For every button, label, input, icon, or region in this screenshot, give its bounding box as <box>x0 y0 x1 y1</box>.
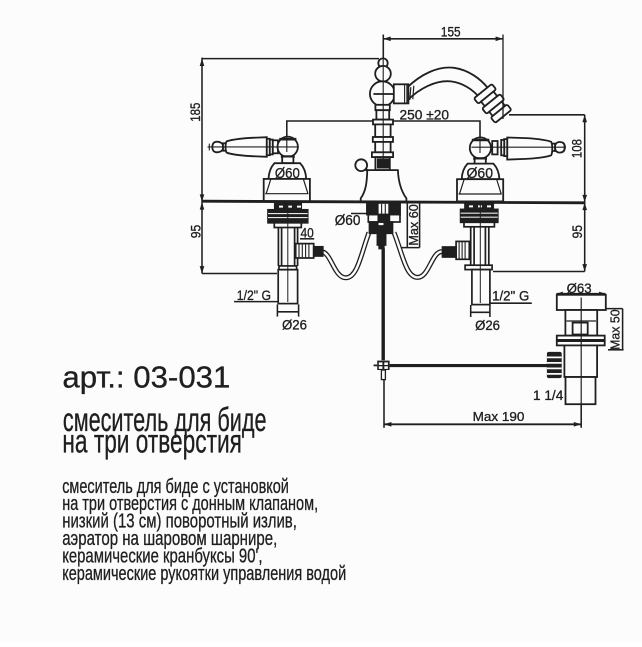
svg-text:155: 155 <box>441 25 461 40</box>
svg-text:Max 190: Max 190 <box>473 409 525 424</box>
svg-text:Ø26: Ø26 <box>282 316 307 332</box>
svg-text:1/2" G: 1/2" G <box>492 288 529 303</box>
svg-text:Ø63: Ø63 <box>567 280 592 296</box>
svg-text:95: 95 <box>569 225 585 239</box>
svg-text:Ø60: Ø60 <box>275 166 300 182</box>
svg-text:40: 40 <box>301 225 314 240</box>
svg-text:95: 95 <box>187 225 203 239</box>
svg-text:керамические рукоятки управлен: керамические рукоятки управления водой <box>62 562 346 585</box>
svg-text:Ø60: Ø60 <box>335 213 361 229</box>
svg-text:Max 60: Max 60 <box>406 204 421 246</box>
svg-text:185: 185 <box>187 103 203 122</box>
svg-text:1 1/4: 1 1/4 <box>533 388 564 403</box>
svg-text:Ø60: Ø60 <box>467 166 494 182</box>
svg-text:Ø26: Ø26 <box>475 317 500 333</box>
svg-text:108: 108 <box>569 139 585 158</box>
svg-text:арт.: 03-031: арт.: 03-031 <box>62 361 230 395</box>
svg-text:на три отверстия: на три отверстия <box>62 422 242 459</box>
svg-text:1/2" G: 1/2" G <box>237 288 271 303</box>
svg-text:250 ±20: 250 ±20 <box>400 107 450 123</box>
svg-text:Max 50: Max 50 <box>608 309 623 350</box>
